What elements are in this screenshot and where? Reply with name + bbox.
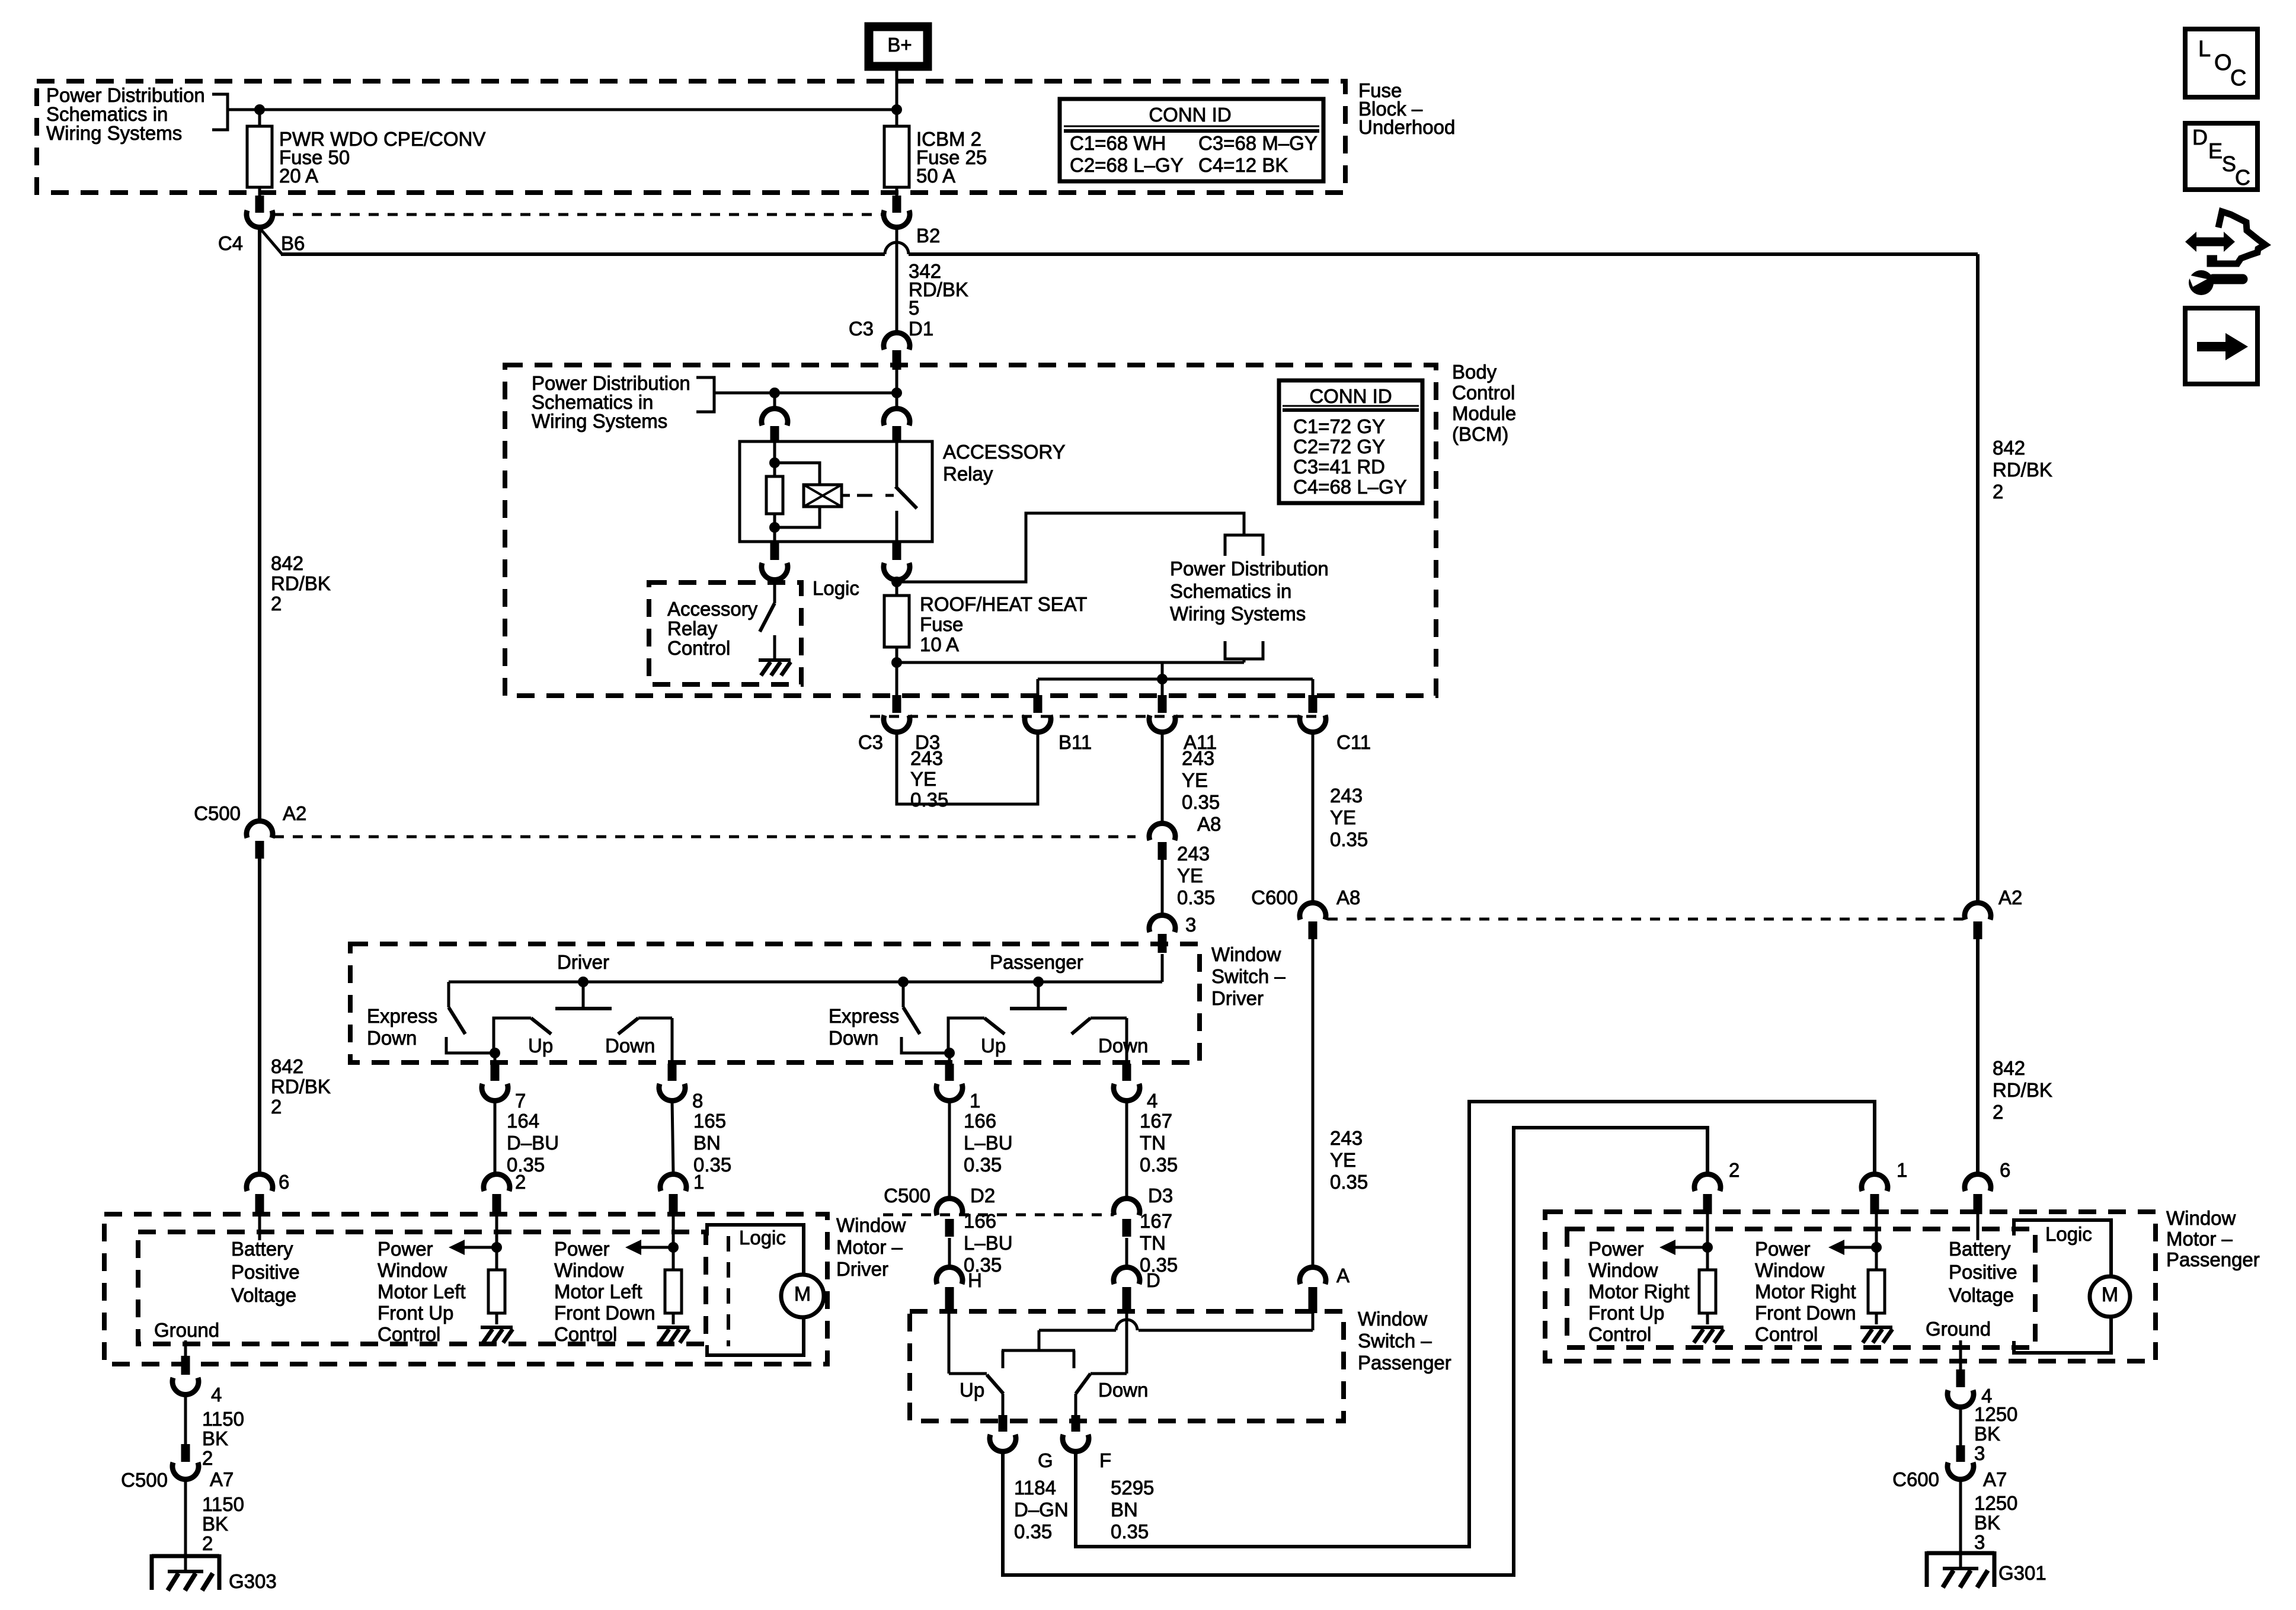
- svg-text:Driver: Driver: [1211, 987, 1264, 1009]
- svg-text:Control: Control: [1755, 1323, 1818, 1345]
- svg-text:Ground: Ground: [1926, 1318, 1991, 1340]
- svg-text:2: 2: [1993, 481, 2003, 502]
- svg-text:0.35: 0.35: [1177, 886, 1215, 908]
- svg-text:C600: C600: [1892, 1468, 1939, 1490]
- svg-text:Express: Express: [367, 1005, 437, 1027]
- svg-text:1: 1: [1897, 1159, 1907, 1181]
- svg-text:Window: Window: [1211, 943, 1281, 965]
- svg-text:B+: B+: [887, 34, 912, 56]
- svg-text:Window: Window: [836, 1214, 906, 1236]
- svg-text:Down: Down: [1098, 1379, 1148, 1401]
- svg-text:Battery: Battery: [1949, 1238, 2011, 1260]
- svg-text:C500: C500: [121, 1469, 168, 1491]
- svg-text:7: 7: [515, 1090, 526, 1112]
- svg-text:167: 167: [1140, 1110, 1172, 1132]
- svg-text:1250: 1250: [1974, 1492, 2017, 1514]
- svg-text:0.35: 0.35: [1014, 1521, 1052, 1542]
- svg-text:50 A: 50 A: [916, 165, 955, 187]
- svg-text:2: 2: [515, 1171, 526, 1193]
- svg-text:Down: Down: [829, 1027, 878, 1049]
- svg-text:O: O: [2214, 50, 2232, 75]
- svg-text:M: M: [794, 1283, 811, 1305]
- svg-text:BK: BK: [202, 1513, 228, 1535]
- svg-text:Fuse: Fuse: [920, 613, 963, 635]
- svg-text:0.35: 0.35: [1330, 1171, 1368, 1193]
- svg-text:Logic: Logic: [813, 577, 859, 599]
- svg-text:Positive: Positive: [231, 1261, 300, 1283]
- svg-text:BK: BK: [1974, 1512, 2000, 1534]
- svg-text:S: S: [2222, 152, 2236, 176]
- svg-text:164: 164: [507, 1110, 539, 1132]
- svg-text:A7: A7: [210, 1468, 234, 1490]
- svg-text:Power Distribution: Power Distribution: [1170, 558, 1329, 580]
- svg-text:Switch –: Switch –: [1211, 965, 1285, 987]
- svg-text:Body: Body: [1452, 361, 1497, 383]
- svg-text:BK: BK: [202, 1427, 228, 1449]
- svg-text:Motor Right: Motor Right: [1588, 1281, 1690, 1302]
- svg-text:A8: A8: [1197, 813, 1221, 835]
- svg-text:C11: C11: [1336, 731, 1371, 753]
- svg-text:243: 243: [1177, 843, 1210, 865]
- svg-text:2: 2: [1993, 1101, 2003, 1123]
- svg-text:Wiring Systems: Wiring Systems: [532, 410, 667, 432]
- svg-text:Wiring Systems: Wiring Systems: [46, 122, 182, 144]
- svg-text:C3: C3: [858, 731, 883, 753]
- svg-text:2: 2: [271, 593, 282, 614]
- svg-text:Control: Control: [554, 1323, 617, 1345]
- svg-text:C600: C600: [1251, 886, 1298, 908]
- svg-text:G: G: [1038, 1449, 1053, 1471]
- svg-text:B11: B11: [1059, 731, 1092, 753]
- svg-text:Driver: Driver: [836, 1258, 888, 1280]
- svg-text:C1=68 WH: C1=68 WH: [1070, 132, 1166, 154]
- svg-text:Down: Down: [605, 1035, 655, 1057]
- svg-text:A2: A2: [1998, 886, 2022, 908]
- svg-text:(BCM): (BCM): [1452, 423, 1508, 445]
- svg-text:Power: Power: [378, 1238, 433, 1260]
- svg-text:Front Down: Front Down: [1755, 1302, 1856, 1324]
- svg-text:C2=72 GY: C2=72 GY: [1293, 436, 1385, 457]
- svg-text:Motor Left: Motor Left: [554, 1281, 642, 1302]
- svg-text:0.35: 0.35: [1182, 791, 1220, 813]
- svg-text:Window: Window: [378, 1259, 447, 1281]
- svg-text:D3: D3: [1148, 1185, 1173, 1206]
- svg-text:RD/BK: RD/BK: [1993, 459, 2052, 481]
- svg-text:C4=12 BK: C4=12 BK: [1198, 154, 1288, 176]
- svg-text:A: A: [1336, 1265, 1350, 1286]
- svg-text:YE: YE: [1177, 865, 1203, 886]
- svg-text:1250: 1250: [1974, 1403, 2017, 1425]
- svg-text:Passenger: Passenger: [1358, 1352, 1451, 1374]
- svg-text:B2: B2: [916, 225, 940, 247]
- svg-text:Window: Window: [554, 1259, 624, 1281]
- svg-text:1: 1: [970, 1090, 980, 1112]
- svg-text:3: 3: [1974, 1531, 1985, 1553]
- svg-text:0.35: 0.35: [1330, 828, 1368, 850]
- svg-text:166: 166: [964, 1110, 996, 1132]
- svg-text:2: 2: [271, 1096, 282, 1118]
- svg-text:243: 243: [1330, 785, 1363, 806]
- svg-text:Relay: Relay: [943, 463, 993, 485]
- svg-text:TN: TN: [1140, 1132, 1166, 1154]
- svg-text:Power: Power: [1755, 1238, 1811, 1260]
- svg-text:D: D: [2192, 125, 2208, 149]
- svg-text:842: 842: [271, 552, 303, 574]
- svg-text:CONN ID: CONN ID: [1149, 104, 1231, 126]
- svg-text:Window: Window: [1588, 1259, 1658, 1281]
- svg-text:1: 1: [693, 1171, 704, 1193]
- svg-text:C3=41 RD: C3=41 RD: [1293, 456, 1385, 478]
- svg-text:Control: Control: [378, 1323, 440, 1345]
- svg-text:842: 842: [271, 1055, 303, 1077]
- svg-text:4: 4: [211, 1384, 222, 1406]
- svg-text:Logic: Logic: [2045, 1223, 2092, 1245]
- svg-text:D: D: [1146, 1269, 1160, 1291]
- svg-text:1184: 1184: [1014, 1477, 1056, 1499]
- svg-text:Power: Power: [1588, 1238, 1644, 1260]
- svg-text:A2: A2: [283, 802, 306, 824]
- svg-text:Voltage: Voltage: [1949, 1284, 2014, 1306]
- svg-text:1150: 1150: [202, 1493, 244, 1515]
- svg-text:C3: C3: [849, 318, 874, 340]
- svg-text:H: H: [968, 1269, 982, 1291]
- svg-text:C500: C500: [884, 1185, 930, 1206]
- svg-text:Down: Down: [367, 1027, 417, 1049]
- svg-text:YE: YE: [1330, 806, 1356, 828]
- svg-text:YE: YE: [1182, 769, 1208, 791]
- svg-text:Positive: Positive: [1949, 1261, 2017, 1283]
- svg-text:C500: C500: [194, 802, 241, 824]
- svg-text:B6: B6: [281, 232, 305, 254]
- svg-text:Driver: Driver: [557, 951, 609, 973]
- svg-text:Accessory: Accessory: [667, 598, 758, 620]
- svg-text:Up: Up: [981, 1035, 1006, 1057]
- svg-text:8: 8: [692, 1090, 703, 1112]
- svg-text:243: 243: [1182, 747, 1214, 769]
- svg-text:Passenger: Passenger: [990, 951, 1083, 973]
- svg-text:ROOF/HEAT SEAT: ROOF/HEAT SEAT: [920, 593, 1087, 615]
- svg-text:L–BU: L–BU: [964, 1132, 1013, 1154]
- svg-text:D2: D2: [970, 1185, 995, 1206]
- svg-text:Module: Module: [1452, 402, 1516, 424]
- svg-text:Power: Power: [554, 1238, 610, 1260]
- svg-text:Front Down: Front Down: [554, 1302, 655, 1324]
- svg-text:243: 243: [910, 747, 943, 769]
- svg-text:L–BU: L–BU: [964, 1232, 1013, 1254]
- svg-text:G301: G301: [1998, 1562, 2046, 1584]
- svg-text:2: 2: [1729, 1159, 1739, 1181]
- svg-text:3: 3: [1185, 914, 1196, 936]
- svg-text:Motor Right: Motor Right: [1755, 1281, 1856, 1302]
- svg-text:Switch –: Switch –: [1358, 1330, 1432, 1352]
- svg-text:6: 6: [279, 1171, 289, 1193]
- svg-text:5: 5: [909, 297, 919, 319]
- svg-text:Battery: Battery: [231, 1238, 293, 1260]
- svg-text:BN: BN: [1111, 1499, 1138, 1521]
- svg-text:5295: 5295: [1111, 1477, 1154, 1499]
- svg-text:2: 2: [202, 1532, 213, 1554]
- svg-text:BK: BK: [1974, 1423, 2000, 1445]
- svg-text:ACCESSORY: ACCESSORY: [943, 441, 1066, 463]
- svg-text:RD/BK: RD/BK: [1993, 1079, 2052, 1101]
- svg-text:Up: Up: [960, 1379, 984, 1401]
- svg-text:1150: 1150: [202, 1408, 244, 1430]
- svg-text:Down: Down: [1098, 1035, 1148, 1057]
- svg-text:YE: YE: [1330, 1149, 1356, 1171]
- svg-text:10 A: 10 A: [920, 633, 959, 655]
- svg-text:20 A: 20 A: [279, 165, 318, 187]
- svg-text:Control: Control: [667, 637, 730, 659]
- svg-text:243: 243: [1330, 1127, 1363, 1149]
- svg-text:Voltage: Voltage: [231, 1284, 296, 1306]
- svg-text:C: C: [2235, 165, 2250, 190]
- svg-text:E: E: [2208, 139, 2223, 163]
- svg-text:Underhood: Underhood: [1358, 116, 1455, 138]
- svg-text:Window: Window: [1358, 1308, 1428, 1330]
- svg-text:D1: D1: [909, 318, 933, 340]
- svg-text:6: 6: [2000, 1159, 2010, 1181]
- svg-text:RD/BK: RD/BK: [271, 572, 331, 594]
- svg-text:4: 4: [1147, 1090, 1157, 1112]
- svg-text:Motor Left: Motor Left: [378, 1281, 466, 1302]
- svg-text:F: F: [1099, 1449, 1111, 1471]
- svg-text:C4=68 L–GY: C4=68 L–GY: [1293, 476, 1407, 498]
- svg-text:167: 167: [1140, 1210, 1172, 1232]
- svg-text:165: 165: [693, 1110, 726, 1132]
- svg-text:Front Up: Front Up: [1588, 1302, 1664, 1324]
- svg-text:Up: Up: [528, 1035, 553, 1057]
- svg-text:Logic: Logic: [739, 1227, 786, 1249]
- svg-text:Relay: Relay: [667, 617, 718, 639]
- svg-text:0.35: 0.35: [910, 789, 948, 811]
- svg-text:C1=72 GY: C1=72 GY: [1293, 415, 1385, 437]
- svg-text:Passenger: Passenger: [2166, 1249, 2260, 1270]
- svg-text:0.35: 0.35: [964, 1154, 1002, 1176]
- svg-text:842: 842: [1993, 1057, 2025, 1079]
- svg-text:RD/BK: RD/BK: [271, 1076, 331, 1097]
- svg-text:Window: Window: [1755, 1259, 1825, 1281]
- svg-text:A7: A7: [1983, 1468, 2007, 1490]
- svg-text:842: 842: [1993, 437, 2025, 459]
- svg-text:0.35: 0.35: [1111, 1521, 1149, 1542]
- svg-text:YE: YE: [910, 768, 936, 790]
- svg-text:C4: C4: [218, 232, 243, 254]
- svg-text:Motor –: Motor –: [2166, 1228, 2233, 1250]
- svg-text:Ground: Ground: [154, 1319, 219, 1341]
- svg-text:Window: Window: [2166, 1207, 2236, 1229]
- svg-text:Schematics in: Schematics in: [1170, 580, 1291, 602]
- svg-text:M: M: [2102, 1283, 2118, 1306]
- svg-text:Control: Control: [1588, 1323, 1651, 1345]
- svg-text:C2=68 L–GY: C2=68 L–GY: [1070, 154, 1184, 176]
- svg-text:TN: TN: [1140, 1232, 1166, 1254]
- svg-text:3: 3: [1974, 1442, 1985, 1464]
- svg-text:0.35: 0.35: [1140, 1154, 1178, 1176]
- svg-text:Control: Control: [1452, 382, 1515, 404]
- svg-text:D–GN: D–GN: [1014, 1499, 1069, 1521]
- svg-text:Wiring Systems: Wiring Systems: [1170, 603, 1306, 625]
- svg-text:C: C: [2230, 66, 2246, 91]
- svg-text:C3=68 M–GY: C3=68 M–GY: [1198, 132, 1318, 154]
- svg-text:A8: A8: [1336, 886, 1360, 908]
- svg-text:Express: Express: [829, 1005, 899, 1027]
- svg-text:166: 166: [964, 1210, 996, 1232]
- svg-text:CONN ID: CONN ID: [1309, 385, 1392, 407]
- svg-text:Front Up: Front Up: [378, 1302, 453, 1324]
- svg-text:G303: G303: [229, 1570, 277, 1592]
- svg-text:BN: BN: [693, 1132, 721, 1154]
- svg-text:D–BU: D–BU: [507, 1132, 559, 1154]
- svg-text:Motor –: Motor –: [836, 1236, 903, 1258]
- svg-text:L: L: [2198, 37, 2211, 62]
- svg-text:2: 2: [202, 1447, 213, 1469]
